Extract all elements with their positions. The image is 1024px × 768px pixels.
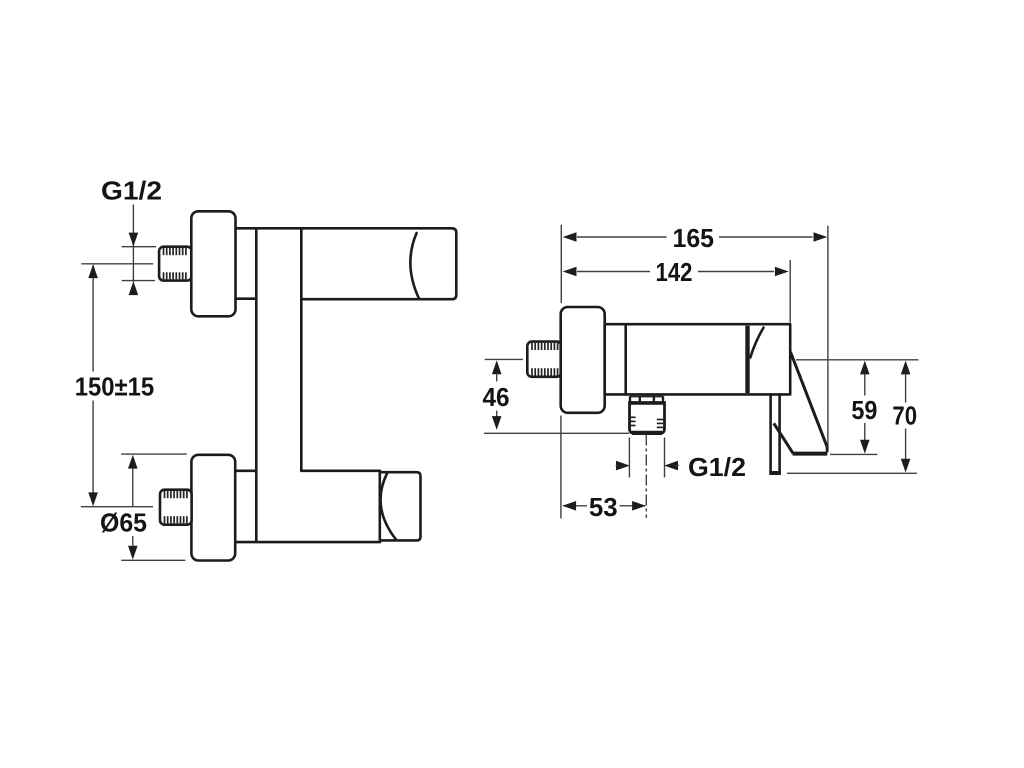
bottom outlet pipe end cap — [380, 471, 421, 541]
extension line Ø65 top — [121, 453, 187, 455]
thread nipple bottom (hatched) — [160, 490, 192, 525]
outlet centre line — [645, 435, 647, 519]
wall flange bottom — [191, 455, 235, 561]
cylinder end arc of top pipe — [410, 233, 419, 299]
collar separation line — [624, 324, 627, 394]
G1/2 arrow pointing right — [616, 461, 630, 471]
svg-text:165: 165 — [673, 223, 715, 253]
svg-text:G1/2: G1/2 — [101, 176, 162, 206]
lever handle blade — [774, 352, 828, 454]
svg-text:150±15: 150±15 — [75, 371, 155, 401]
reference line at top thread centre (150 dim) — [81, 263, 153, 265]
46 arrow down — [492, 416, 502, 430]
arrow up at thread bottom — [129, 281, 139, 295]
dimension 59 — [860, 361, 870, 375]
G1/2 arrow pointing left — [664, 461, 678, 471]
reference line bottom 59 — [830, 453, 878, 455]
extension line thread top — [122, 246, 156, 248]
neck bottom edge of top assembly — [236, 297, 256, 300]
Ø65 lower shaft — [132, 536, 134, 546]
outlet collar — [630, 397, 664, 403]
extension line 165 right — [827, 226, 829, 451]
arrow left 142 — [563, 267, 577, 277]
arrow right 165 — [814, 232, 828, 242]
svg-text:70: 70 — [892, 400, 917, 430]
reference line bottom 70 — [787, 472, 917, 474]
bottom outlet pipe top edges — [234, 469, 256, 472]
svg-text:59: 59 — [851, 395, 877, 425]
Ø65 arrow down — [128, 546, 138, 560]
svg-text:53: 53 — [589, 492, 618, 522]
dimension 46 reference bottom — [484, 432, 629, 434]
arrow down at thread top — [129, 233, 139, 247]
svg-text:142: 142 — [656, 257, 693, 287]
lever handle bar — [769, 394, 781, 473]
mixer body column right edge — [300, 228, 303, 470]
46 arrow up — [492, 360, 502, 374]
extension line 142 right — [789, 260, 791, 323]
dimension 70 — [901, 361, 911, 375]
dimension 46 reference top — [485, 358, 523, 360]
lever wedge — [750, 328, 763, 358]
arrow left 165 — [563, 232, 577, 242]
reference line top for 59/70 — [796, 359, 918, 361]
reference line at bottom thread centre (150 dim) — [81, 506, 153, 508]
arrow up 150 — [88, 264, 98, 278]
wall flange top — [191, 211, 235, 316]
outlet thread G1/2 (hatched, bold end) — [630, 403, 665, 434]
extension line wall plane (165/142 left) — [560, 225, 562, 303]
wall flange side view — [561, 307, 605, 413]
dimension line 142 — [577, 271, 650, 273]
arrow right 142 — [775, 267, 789, 277]
dimension line 165 — [577, 236, 667, 238]
cylinder end arc of bottom pipe — [381, 474, 396, 540]
mixer body side view — [605, 324, 791, 394]
leader line for G1/2 thread dimension — [132, 205, 134, 283]
extension line Ø65 bottom — [121, 559, 185, 561]
dimension line 53 — [563, 505, 587, 507]
extension line thread bottom — [122, 280, 155, 282]
svg-text:46: 46 — [483, 382, 510, 412]
dimension line 150±15 — [92, 266, 94, 372]
Ø65 upper shaft — [132, 468, 134, 507]
extension lines G1/2 dimension (right view) — [628, 438, 630, 478]
cartridge seam (bold bar) — [745, 326, 749, 393]
svg-text:G1/2: G1/2 — [688, 452, 746, 482]
extension line wall plane lower — [560, 416, 562, 519]
mixer body column left edge — [255, 228, 258, 541]
Ø65 arrow up — [128, 455, 138, 469]
spout pipe top (horizontal cylinder) — [236, 228, 456, 299]
bottom outlet pipe bottom edge — [234, 541, 380, 544]
arrow down 150 — [88, 492, 98, 506]
svg-text:Ø65: Ø65 — [100, 507, 147, 537]
thread nipple side view (hatched) — [527, 342, 561, 377]
thread nipple top (hatched) — [159, 247, 192, 281]
